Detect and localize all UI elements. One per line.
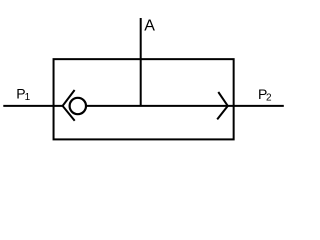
svg-text:1: 1 (25, 92, 31, 103)
svg-text:2: 2 (266, 93, 272, 104)
svg-text:A: A (144, 18, 155, 35)
